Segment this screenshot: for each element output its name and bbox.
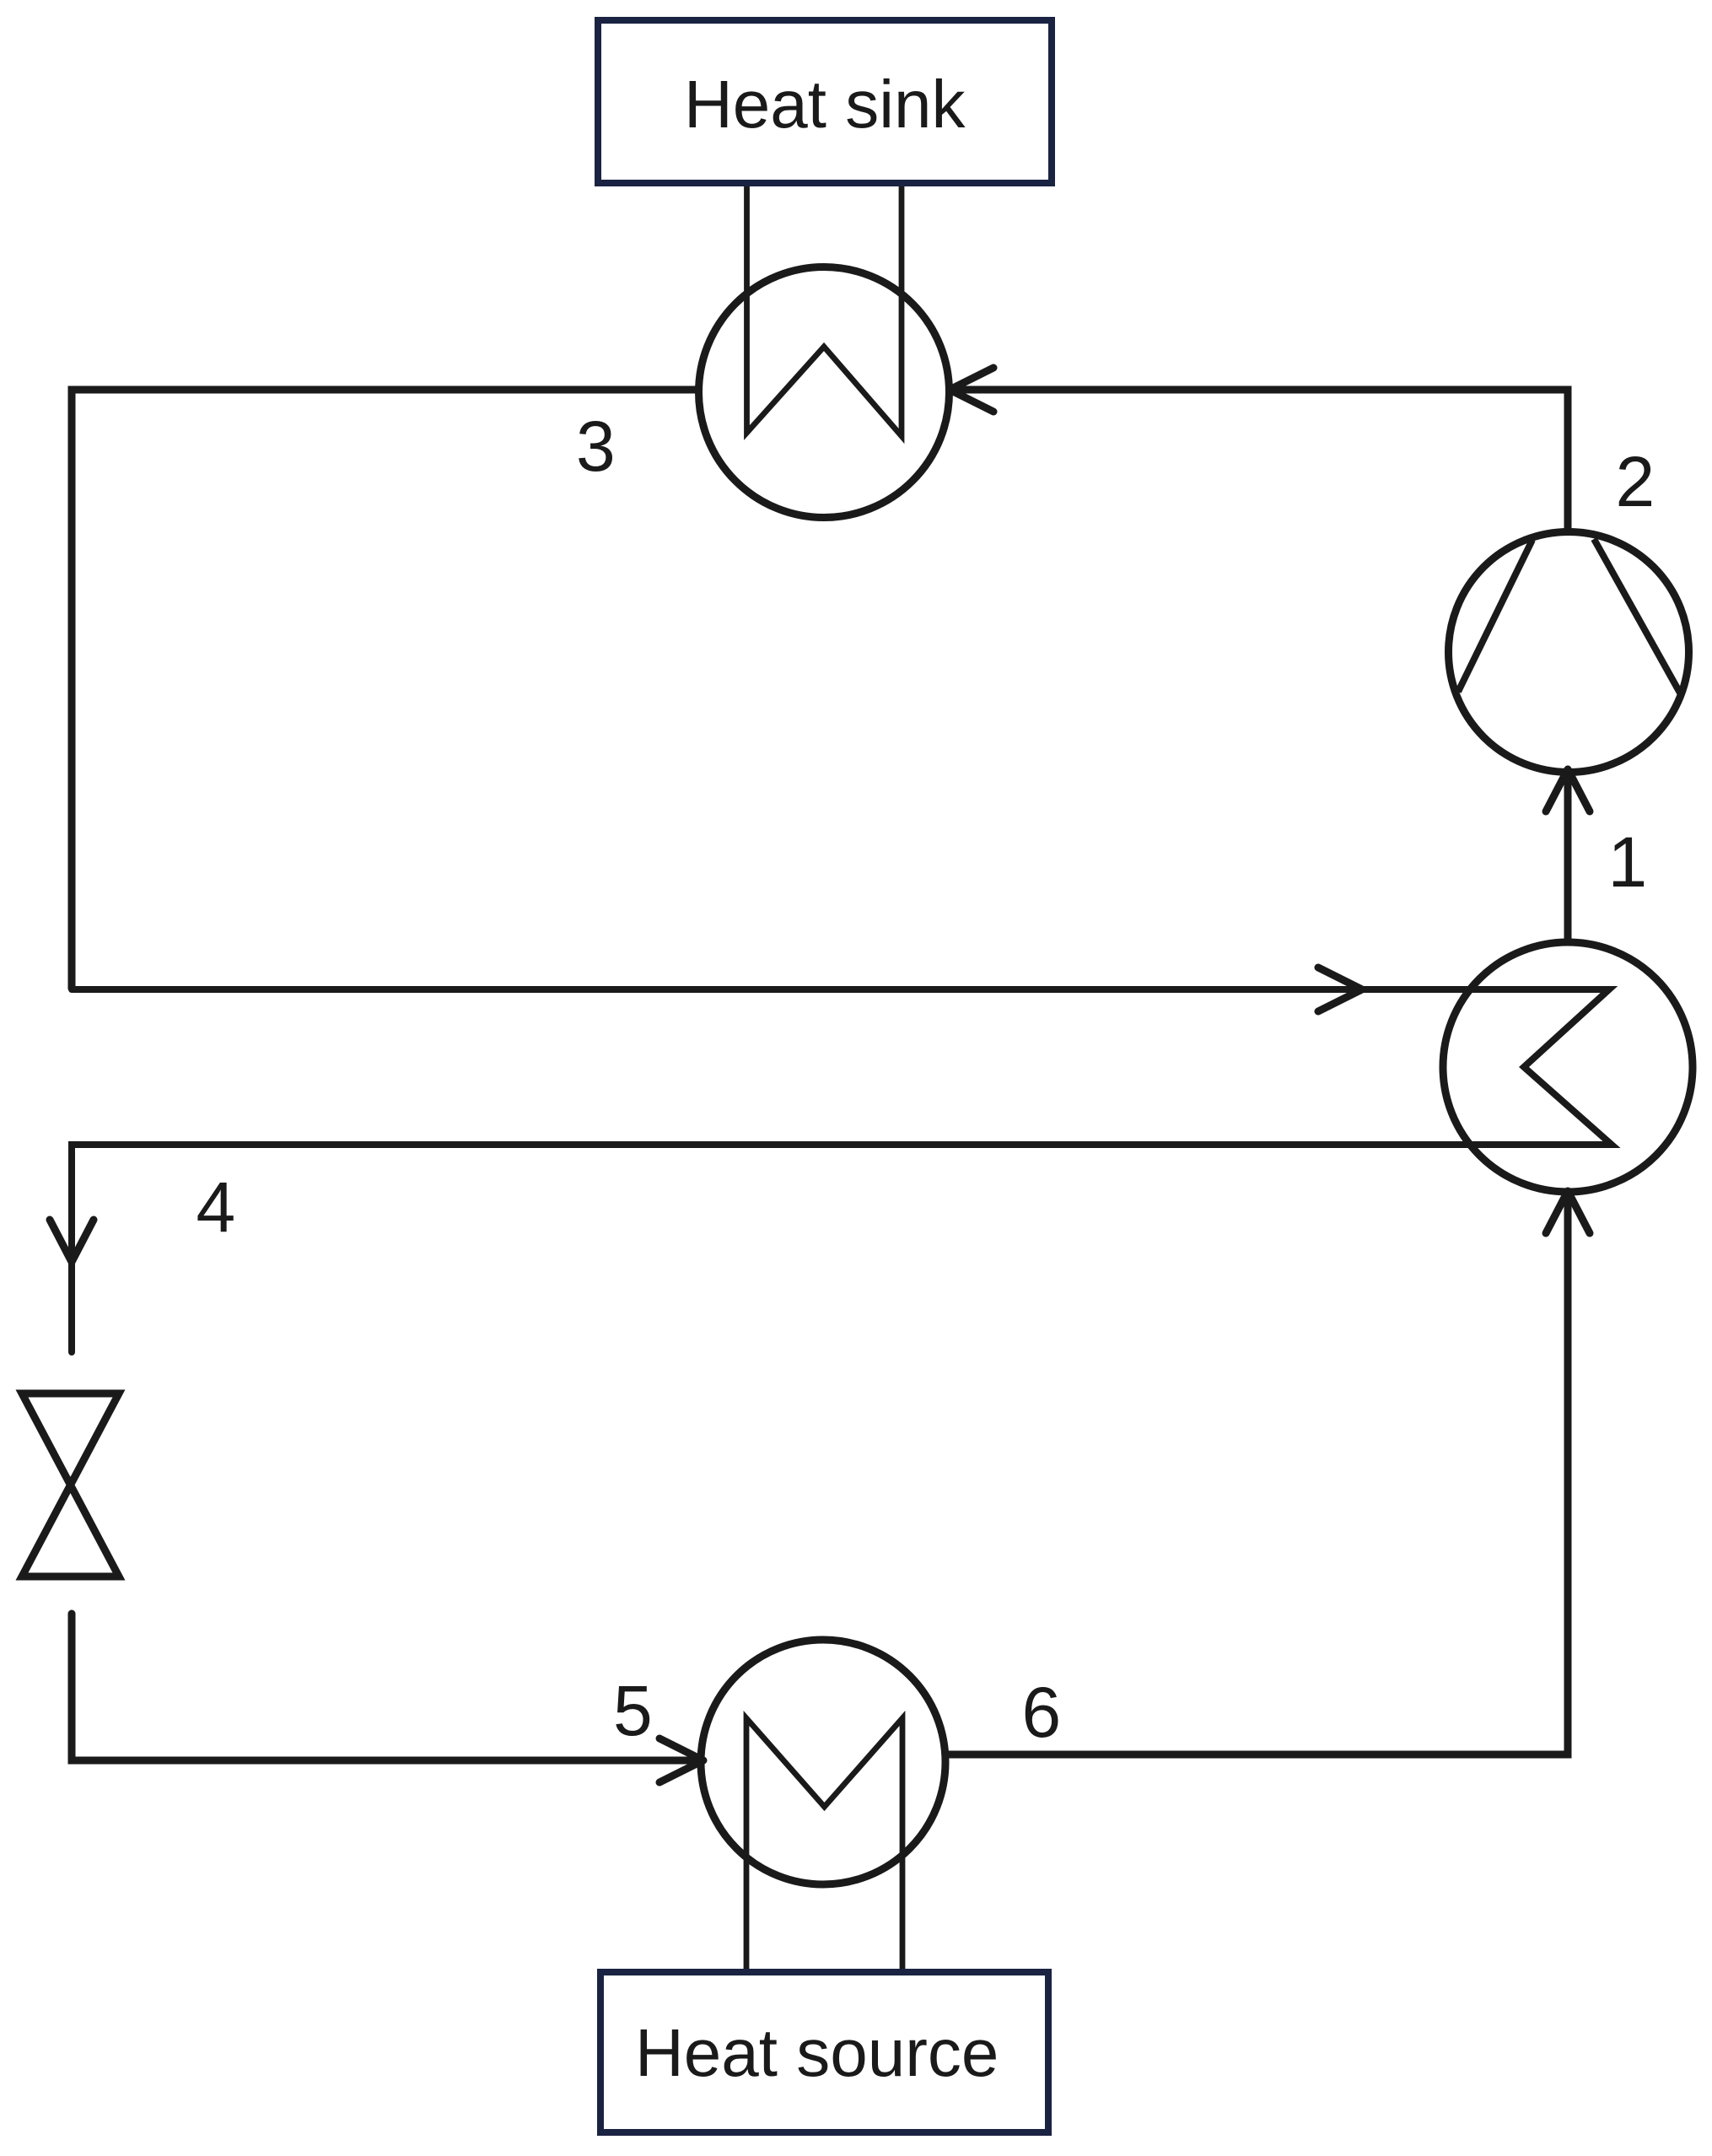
arrowhead up into IHX bottom — [1546, 1191, 1590, 1233]
evaporator U4 circle — [701, 1640, 945, 1884]
arrowhead down on valve inlet wire — [50, 1220, 94, 1262]
condenser U1 circle — [699, 267, 950, 518]
arrowhead into condenser (left-pointing at circle right edge) — [950, 368, 993, 412]
arrowhead right on wire into IHX — [1318, 968, 1362, 1011]
svg-text:Heat source: Heat source — [635, 2015, 999, 2090]
wire valve to evaporator (state 5) — [72, 1614, 698, 1760]
evaporator pipes + M symbol — [746, 1718, 902, 1969]
arrowhead up into compressor bottom — [1546, 769, 1590, 811]
condenser pipes + W symbol — [747, 185, 902, 436]
svg-text:4: 4 — [197, 1167, 236, 1247]
IHX U3 circle — [1443, 942, 1693, 1192]
svg-text:6: 6 — [1022, 1673, 1062, 1752]
compressor chord left — [1458, 540, 1532, 692]
arrowhead right into evaporator left edge — [659, 1738, 703, 1782]
wire compressor to IHX (state 1) — [1564, 774, 1572, 943]
heat source box — [600, 1972, 1048, 2132]
wire top loop: left vertical, top horizontal, right drop to compressor — [72, 390, 1568, 989]
wire evaporator to IHX (state 6) — [945, 1198, 1568, 1754]
wire middle with IHX chevron and left drop (states 3/4) — [72, 989, 1612, 1352]
svg-text:5: 5 — [613, 1671, 653, 1750]
svg-text:2: 2 — [1616, 442, 1655, 521]
compressor U2 circle — [1449, 532, 1689, 773]
svg-text:1: 1 — [1608, 822, 1648, 902]
svg-text:Heat sink: Heat sink — [684, 67, 966, 142]
expansion valve V1 — [22, 1393, 119, 1577]
heat sink box — [598, 20, 1052, 183]
compressor chord right — [1594, 539, 1682, 696]
svg-text:3: 3 — [576, 407, 616, 486]
